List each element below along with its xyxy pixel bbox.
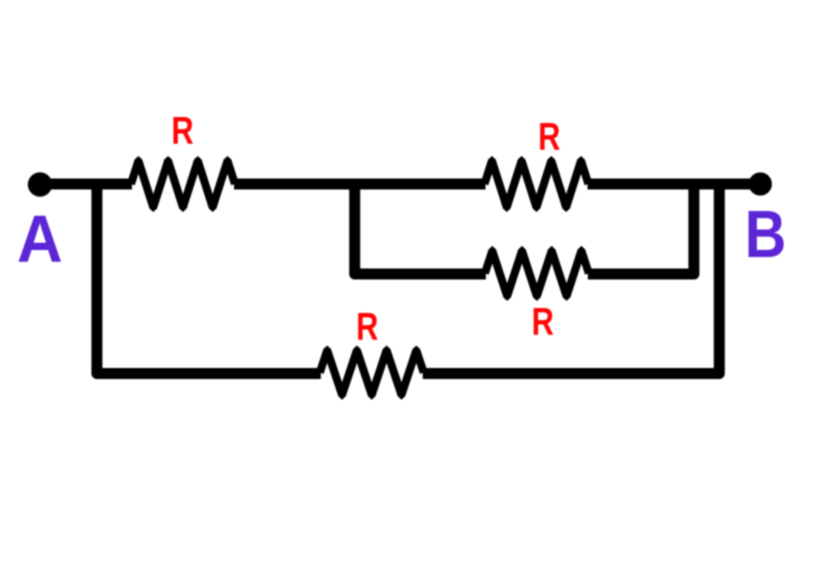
- resistor R1: [127, 156, 239, 212]
- svg-text:B: B: [745, 198, 787, 272]
- node B terminal dot: [749, 172, 772, 195]
- resistor R3: [481, 246, 593, 301]
- wire junction vertical + middle branch left segment: [355, 180, 486, 274]
- wire middle branch right segment + vertical up to top wire: [588, 180, 694, 274]
- svg-text:R: R: [171, 109, 193, 152]
- svg-text:R: R: [538, 115, 560, 158]
- svg-text:R: R: [356, 305, 378, 348]
- resistor R4: [316, 346, 428, 400]
- svg-text:A: A: [17, 202, 63, 277]
- wire top: A to resistor R1: [40, 179, 132, 190]
- resistor R2: [481, 156, 593, 212]
- wire bottom branch right segment + right vertical up to top wire: [423, 180, 720, 374]
- node A terminal dot: [28, 172, 52, 196]
- wire left vertical + bottom branch left segment: [97, 180, 321, 374]
- wire top: R2 to node B: [588, 179, 761, 190]
- svg-text:R: R: [532, 300, 554, 343]
- wire top: R1 to resistor R2 (through junction): [234, 179, 486, 190]
